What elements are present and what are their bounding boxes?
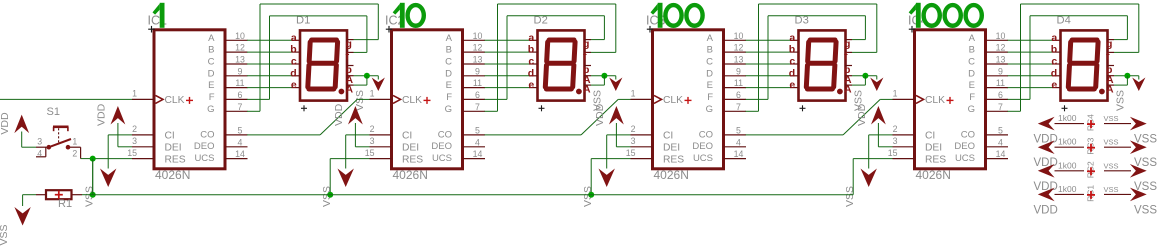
svg-text:C: C	[208, 57, 215, 68]
svg-text:6: 6	[238, 90, 243, 100]
svg-text:1: 1	[132, 89, 137, 99]
svg-text:CI: CI	[663, 131, 673, 142]
svg-text:3: 3	[893, 136, 898, 146]
svg-text:DEO: DEO	[194, 141, 215, 152]
svg-text:VSS: VSS	[1134, 204, 1157, 216]
svg-text:B: B	[707, 45, 713, 56]
svg-text:DEI: DEI	[402, 143, 419, 154]
svg-text:a: a	[528, 32, 534, 44]
svg-text:b: b	[528, 44, 534, 56]
svg-text:B: B	[969, 45, 975, 56]
svg-text:13: 13	[473, 55, 483, 65]
svg-text:3: 3	[132, 136, 137, 146]
svg-text:14: 14	[473, 149, 483, 159]
svg-text:F: F	[969, 92, 975, 103]
svg-text:CI: CI	[165, 131, 175, 142]
svg-text:4026N: 4026N	[654, 168, 689, 182]
svg-text:RES: RES	[663, 154, 684, 165]
svg-text:4: 4	[37, 148, 42, 158]
svg-text:A: A	[707, 33, 714, 44]
svg-text:2: 2	[132, 124, 137, 134]
svg-text:VSS: VSS	[1104, 161, 1119, 170]
svg-text:CLK: CLK	[402, 95, 422, 106]
svg-text:a: a	[291, 32, 297, 44]
svg-text:c: c	[291, 56, 297, 68]
svg-text:7: 7	[736, 102, 741, 112]
svg-text:D2: D2	[534, 15, 548, 27]
svg-text:UCS: UCS	[955, 153, 975, 164]
svg-text:f: f	[346, 51, 350, 63]
svg-text:VDD: VDD	[1034, 204, 1058, 216]
svg-text:VSS: VSS	[1104, 114, 1119, 123]
svg-text:15: 15	[127, 148, 137, 158]
svg-text:S1: S1	[47, 106, 60, 118]
svg-text:c: c	[789, 56, 795, 68]
svg-text:VDD: VDD	[594, 103, 606, 126]
svg-text:5: 5	[238, 126, 243, 136]
svg-text:A: A	[969, 33, 976, 44]
svg-text:1k00: 1k00	[1058, 137, 1077, 147]
svg-text:g: g	[1106, 38, 1112, 50]
svg-text:G: G	[445, 104, 452, 115]
svg-text:RES: RES	[402, 154, 423, 165]
svg-text:1k00: 1k00	[1058, 184, 1077, 194]
svg-text:12: 12	[734, 43, 744, 53]
svg-text:4026N: 4026N	[155, 168, 190, 182]
svg-text:CO: CO	[699, 129, 713, 140]
svg-text:6: 6	[998, 90, 1003, 100]
svg-text:15: 15	[888, 148, 898, 158]
svg-text:10: 10	[235, 31, 245, 41]
svg-text:d: d	[290, 67, 296, 79]
svg-text:C: C	[445, 57, 452, 68]
svg-text:CI: CI	[402, 131, 412, 142]
svg-text:5: 5	[998, 126, 1003, 136]
svg-text:3: 3	[631, 136, 636, 146]
svg-text:9: 9	[475, 66, 480, 76]
svg-text:VSS: VSS	[1104, 185, 1119, 194]
svg-text:C: C	[968, 57, 975, 68]
svg-text:f: f	[1106, 51, 1110, 63]
svg-text:c: c	[528, 56, 534, 68]
svg-text:D3: D3	[795, 15, 809, 27]
svg-text:f: f	[583, 51, 587, 63]
svg-text:VDD: VDD	[0, 112, 11, 135]
svg-text:g: g	[583, 38, 589, 50]
svg-text:VDD: VDD	[1034, 181, 1058, 193]
svg-text:CI: CI	[925, 131, 935, 142]
svg-text:9: 9	[736, 66, 741, 76]
svg-text:12: 12	[235, 43, 245, 53]
svg-text:a: a	[789, 32, 795, 44]
svg-text:D: D	[706, 68, 713, 79]
svg-text:1k00: 1k00	[1058, 160, 1077, 170]
svg-text:4026N: 4026N	[916, 168, 951, 182]
svg-text:R1: R1	[58, 198, 72, 210]
svg-text:IC3: IC3	[646, 13, 666, 27]
svg-text:A: A	[208, 33, 215, 44]
svg-text:4: 4	[475, 137, 480, 147]
svg-text:C: C	[706, 57, 713, 68]
svg-text:A: A	[446, 33, 453, 44]
svg-text:10: 10	[473, 31, 483, 41]
svg-text:14: 14	[734, 149, 744, 159]
svg-text:UCS: UCS	[432, 153, 452, 164]
svg-text:7: 7	[238, 102, 243, 112]
svg-text:11: 11	[473, 78, 482, 88]
svg-text:3: 3	[37, 137, 42, 147]
svg-text:2: 2	[631, 124, 636, 134]
svg-text:6: 6	[475, 90, 480, 100]
svg-text:1: 1	[370, 89, 375, 99]
svg-text:12: 12	[996, 43, 1006, 53]
svg-text:E: E	[446, 80, 452, 91]
svg-text:A: A	[583, 83, 591, 95]
svg-text:VDD: VDD	[95, 103, 107, 126]
svg-text:11: 11	[734, 78, 743, 88]
svg-text:CLK: CLK	[663, 95, 683, 106]
svg-text:d: d	[789, 67, 795, 79]
svg-text:CLK: CLK	[165, 95, 185, 106]
svg-text:CO: CO	[200, 129, 214, 140]
svg-text:RES: RES	[165, 154, 186, 165]
svg-text:DEO: DEO	[692, 141, 713, 152]
svg-text:E: E	[208, 80, 214, 91]
svg-text:3: 3	[370, 136, 375, 146]
svg-text:9: 9	[998, 66, 1003, 76]
svg-text:13: 13	[235, 55, 245, 65]
svg-text:E: E	[707, 80, 713, 91]
svg-text:VSS: VSS	[1114, 90, 1126, 111]
svg-text:F: F	[707, 92, 713, 103]
svg-text:G: G	[207, 104, 214, 115]
svg-text:2: 2	[370, 124, 375, 134]
svg-text:e: e	[789, 79, 795, 91]
svg-text:A: A	[844, 83, 852, 95]
svg-text:e: e	[1051, 79, 1057, 91]
svg-text:12: 12	[473, 43, 483, 53]
svg-text:5: 5	[475, 126, 480, 136]
svg-text:2: 2	[893, 124, 898, 134]
svg-text:10: 10	[734, 31, 744, 41]
svg-text:c: c	[1051, 56, 1057, 68]
svg-text:7: 7	[475, 102, 480, 112]
svg-text:DEI: DEI	[663, 143, 680, 154]
svg-text:15: 15	[626, 148, 636, 158]
svg-text:VDD: VDD	[1034, 134, 1058, 146]
svg-text:VSS: VSS	[1104, 138, 1119, 147]
svg-text:g: g	[346, 38, 352, 50]
svg-text:B: B	[208, 45, 214, 56]
svg-text:4: 4	[736, 137, 741, 147]
svg-text:VDD: VDD	[856, 103, 868, 126]
svg-text:DEI: DEI	[925, 143, 942, 154]
svg-text:b: b	[1051, 44, 1057, 56]
svg-text:DEI: DEI	[165, 143, 182, 154]
svg-text:B: B	[446, 45, 452, 56]
svg-text:D: D	[445, 68, 452, 79]
svg-text:CLK: CLK	[925, 95, 945, 106]
svg-text:13: 13	[996, 55, 1006, 65]
svg-text:6: 6	[736, 90, 741, 100]
svg-text:A: A	[346, 83, 354, 95]
svg-text:14: 14	[996, 149, 1006, 159]
svg-text:15: 15	[365, 148, 375, 158]
svg-text:VSS: VSS	[0, 224, 10, 245]
svg-text:d: d	[1051, 67, 1057, 79]
svg-text:VDD: VDD	[333, 103, 345, 126]
svg-text:e: e	[291, 79, 297, 91]
svg-text:11: 11	[235, 78, 244, 88]
svg-text:1: 1	[631, 89, 636, 99]
svg-text:1: 1	[893, 89, 898, 99]
svg-text:E: E	[969, 80, 975, 91]
svg-text:10: 10	[996, 31, 1006, 41]
svg-text:G: G	[968, 104, 975, 115]
svg-text:CO: CO	[961, 129, 975, 140]
svg-text:DEO: DEO	[954, 141, 975, 152]
svg-text:VDD: VDD	[1034, 157, 1058, 169]
svg-text:4: 4	[238, 137, 243, 147]
svg-text:UCS: UCS	[693, 153, 713, 164]
svg-text:DEO: DEO	[431, 141, 452, 152]
svg-text:D: D	[208, 68, 215, 79]
svg-text:RES: RES	[925, 154, 946, 165]
svg-text:d: d	[528, 67, 534, 79]
svg-text:A: A	[1106, 83, 1114, 95]
svg-text:CO: CO	[438, 129, 452, 140]
svg-text:5: 5	[736, 126, 741, 136]
svg-text:F: F	[209, 92, 215, 103]
svg-text:14: 14	[235, 149, 245, 159]
svg-text:D4: D4	[1057, 15, 1071, 27]
svg-text:1k00: 1k00	[1058, 113, 1077, 123]
svg-text:7: 7	[998, 102, 1003, 112]
svg-text:e: e	[528, 79, 534, 91]
svg-text:a: a	[1051, 32, 1057, 44]
svg-text:F: F	[446, 92, 452, 103]
svg-text:f: f	[844, 51, 848, 63]
svg-text:G: G	[706, 104, 713, 115]
svg-text:4: 4	[998, 137, 1003, 147]
svg-text:2: 2	[72, 148, 77, 158]
svg-text:VSS: VSS	[844, 186, 856, 207]
svg-text:1: 1	[72, 137, 77, 147]
svg-text:11: 11	[996, 78, 1005, 88]
svg-text:4026N: 4026N	[393, 168, 428, 182]
svg-text:D: D	[968, 68, 975, 79]
svg-text:b: b	[290, 44, 296, 56]
svg-text:13: 13	[734, 55, 744, 65]
svg-text:b: b	[789, 44, 795, 56]
svg-text:9: 9	[238, 66, 243, 76]
svg-text:g: g	[844, 38, 850, 50]
svg-text:UCS: UCS	[194, 153, 214, 164]
